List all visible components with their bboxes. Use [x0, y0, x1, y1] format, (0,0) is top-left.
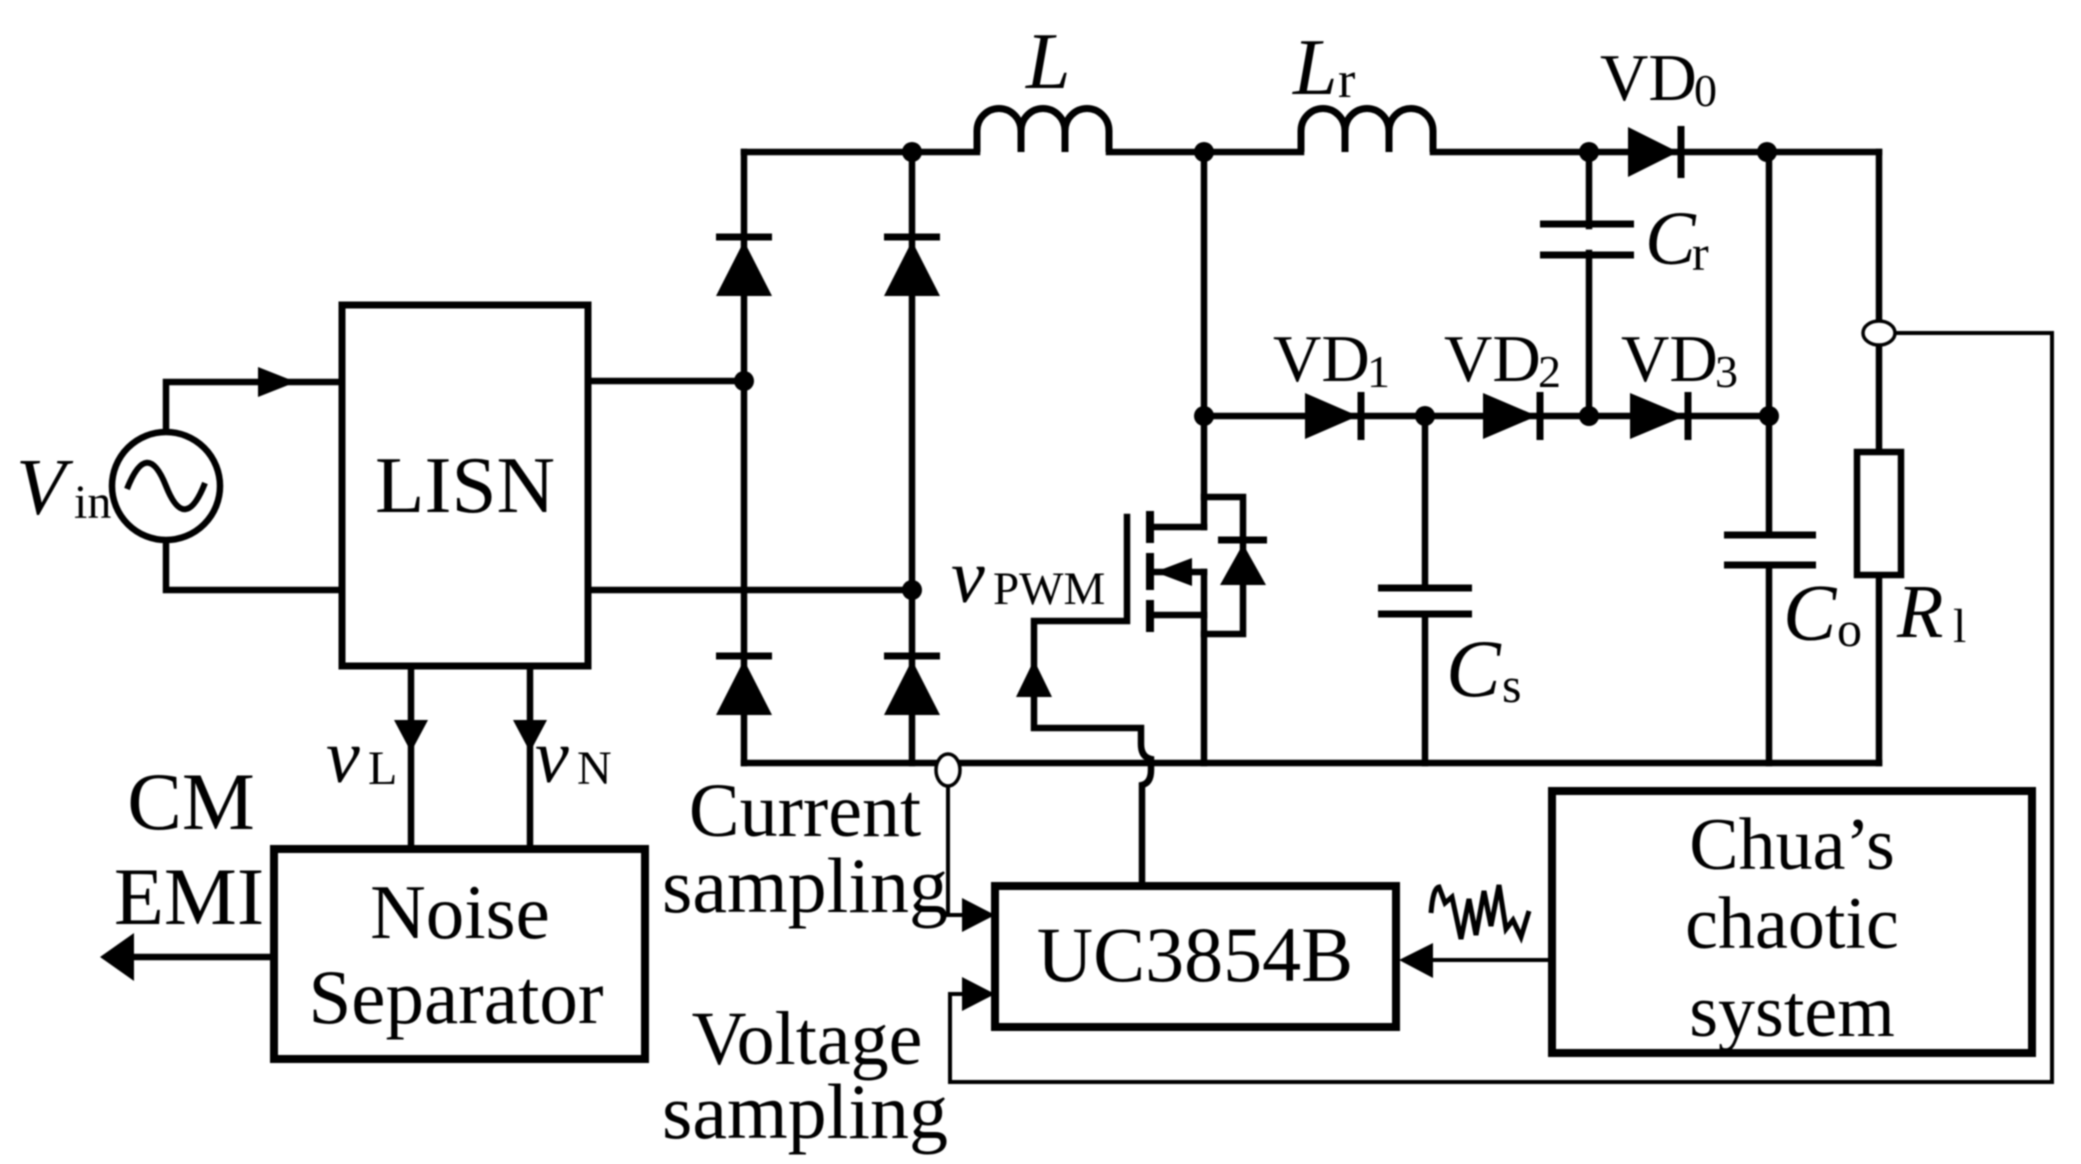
svg-text:C: C	[1645, 197, 1697, 281]
svg-text:s: s	[1502, 657, 1521, 713]
svg-text:EMI: EMI	[114, 851, 264, 942]
svg-text:C: C	[1783, 570, 1838, 658]
svg-text:sampling: sampling	[662, 1068, 948, 1155]
svg-text:in: in	[74, 476, 111, 529]
svg-text:chaotic: chaotic	[1685, 883, 1899, 965]
svg-text:r: r	[1692, 225, 1709, 281]
svg-text:VD: VD	[1600, 41, 1697, 115]
svg-text:L: L	[368, 742, 397, 795]
svg-text:L: L	[1025, 18, 1071, 106]
svg-text:VD: VD	[1444, 322, 1541, 396]
svg-text:UC3854B: UC3854B	[1037, 911, 1353, 998]
svg-text:2: 2	[1538, 346, 1561, 397]
svg-text:3: 3	[1715, 346, 1738, 397]
svg-text:v: v	[326, 715, 360, 799]
svg-text:PWM: PWM	[993, 563, 1105, 615]
svg-text:VD: VD	[1273, 322, 1370, 396]
svg-text:N: N	[577, 742, 612, 795]
svg-text:Chua’s: Chua’s	[1689, 804, 1895, 886]
svg-text:o: o	[1837, 601, 1862, 657]
svg-text:v: v	[535, 715, 569, 799]
svg-text:R: R	[1896, 570, 1943, 654]
svg-text:C: C	[1446, 623, 1502, 714]
svg-text:r: r	[1338, 52, 1355, 109]
svg-text:1: 1	[1367, 346, 1390, 397]
svg-text:VD: VD	[1621, 322, 1718, 396]
svg-text:Noise: Noise	[370, 869, 550, 955]
svg-text:system: system	[1689, 971, 1895, 1053]
svg-text:v: v	[951, 535, 985, 619]
svg-text:V: V	[16, 442, 74, 532]
svg-text:L: L	[1292, 24, 1338, 112]
svg-text:CM: CM	[127, 756, 255, 847]
svg-text:Separator: Separator	[308, 954, 603, 1040]
svg-text:sampling: sampling	[662, 842, 948, 929]
svg-text:l: l	[1953, 600, 1966, 653]
svg-text:Current: Current	[689, 769, 921, 853]
svg-text:LISN: LISN	[375, 440, 555, 530]
svg-text:0: 0	[1694, 65, 1717, 116]
